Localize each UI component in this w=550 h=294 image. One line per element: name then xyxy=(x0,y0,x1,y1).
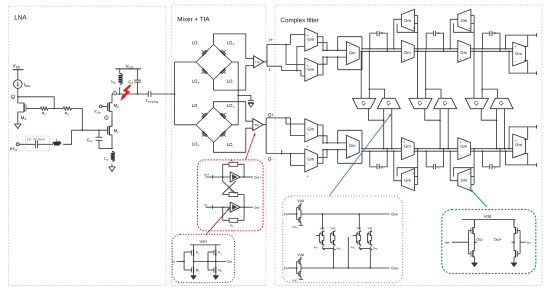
feedback transconductor Gm fb1 xyxy=(401,9,414,31)
green box left inverter NMOS xyxy=(472,250,474,257)
Q+ branch xyxy=(286,118,305,124)
filter capacitor at TIA input xyxy=(238,95,251,100)
ground of M3 xyxy=(15,124,21,129)
svg-text:-: - xyxy=(233,144,234,148)
svg-text:+: + xyxy=(306,34,308,38)
green dashed box coupling Gm implementation xyxy=(442,210,536,274)
transistor N1 xyxy=(193,267,195,274)
wire I mixer top output to TIA xyxy=(214,34,254,59)
svg-text:Complex filter: Complex filter xyxy=(280,17,319,24)
svg-text:+: + xyxy=(469,171,471,175)
cross coupling wires xyxy=(223,181,236,193)
coupling transconductor up node C xyxy=(434,98,457,108)
svg-text:Gm: Gm xyxy=(461,178,468,183)
ground left inverter xyxy=(472,263,478,267)
svg-text:Vdd: Vdd xyxy=(356,227,361,230)
svg-text:Gm: Gm xyxy=(349,50,356,55)
svg-text:Out+: Out+ xyxy=(254,176,261,180)
transistor P2 xyxy=(215,245,217,249)
coupling wires node D lower xyxy=(504,109,506,149)
svg-text:+: + xyxy=(403,140,405,144)
wire R1 to R2 with junction xyxy=(48,108,63,110)
coupling lower loop node B xyxy=(368,109,383,121)
svg-text:Q+: Q+ xyxy=(268,112,275,117)
svg-text:Gm: Gm xyxy=(515,51,522,56)
svg-text:Gm: Gm xyxy=(404,178,411,183)
svg-text:Gm: Gm xyxy=(307,156,314,161)
amplifier triangle 2 xyxy=(230,202,240,212)
wire I mixer right corner to Q mixer right corner xyxy=(232,62,238,125)
main I bus xyxy=(362,48,513,50)
transistor M3 xyxy=(18,102,24,104)
wire Q mixer top output to TIA xyxy=(214,102,253,122)
I- output wire xyxy=(267,46,305,70)
svg-text:Vdd: Vdd xyxy=(297,253,303,257)
coupling transconductor down node B xyxy=(353,98,376,108)
feedback resistor RF2 xyxy=(229,218,238,222)
wire R2 to M1 gate node xyxy=(71,109,82,131)
LNA output node wire xyxy=(112,93,148,95)
purple callout arrow to amplifier triangle xyxy=(206,208,230,235)
svg-text:Gm: Gm xyxy=(461,18,468,23)
op-amp TIA Q xyxy=(253,119,263,131)
ground of N2 xyxy=(213,276,218,280)
Out- stub green box xyxy=(475,241,478,243)
transistor M2 cascode xyxy=(106,103,108,111)
gate bus inverter amp xyxy=(183,252,185,270)
svg-text:+: + xyxy=(460,140,462,144)
ground of Ls xyxy=(109,167,115,172)
svg-text:In-: In- xyxy=(204,203,208,207)
RF input terminal xyxy=(16,143,19,146)
svg-text:Out: Out xyxy=(227,260,233,264)
output terminal wire top xyxy=(528,34,537,36)
inductor Lg xyxy=(53,142,61,145)
svg-text:-: - xyxy=(233,81,234,85)
green box right inverter NMOS xyxy=(515,250,517,257)
svg-text:In-: In- xyxy=(527,241,532,245)
current source Ibias xyxy=(13,80,22,89)
forward transconductor Gm fb1 xyxy=(401,40,414,62)
coupling transconductor up node D xyxy=(490,98,513,108)
DC block capacitor xyxy=(34,140,36,148)
svg-text:B: B xyxy=(381,165,383,169)
red dashed box TIA implementation xyxy=(198,160,264,231)
ground of N1 xyxy=(191,276,196,280)
Out- wire xyxy=(301,213,390,215)
ESD strike red lightning bolt xyxy=(122,85,130,97)
wire I mixer bottom output to TIA xyxy=(214,66,254,91)
svg-text:Gm: Gm xyxy=(404,50,411,55)
Vdd rail inverter amp xyxy=(190,244,221,246)
inductor Ls degeneration xyxy=(111,152,114,161)
red callout arrow to TIA Q xyxy=(246,133,256,160)
svg-text:+: + xyxy=(403,57,405,61)
wire gate line to M1 xyxy=(72,129,108,131)
coupling wires node C upper xyxy=(417,51,419,98)
svg-text:D: D xyxy=(494,165,496,169)
Vcas bias terminal xyxy=(99,105,102,108)
node capacitor CB xyxy=(370,33,377,49)
svg-text:+: + xyxy=(515,45,517,49)
In- wire green box xyxy=(520,241,526,243)
svg-text:Gm: Gm xyxy=(404,144,411,149)
green box right gate bus xyxy=(519,231,521,254)
capacitor Cd xyxy=(137,69,139,80)
wire Ccoupling to mixer RF node xyxy=(151,93,175,95)
transistor N2 xyxy=(215,267,217,274)
wire current source to node a xyxy=(17,88,19,103)
feedback transconductor Gm fb2 xyxy=(458,9,471,31)
RF distribution wire to I and Q mixers xyxy=(174,62,176,125)
wire Q mixer bottom output to TIA xyxy=(214,128,253,152)
coupling wires node B upper xyxy=(360,51,362,98)
ground right inverter xyxy=(511,263,517,267)
resistor R2 xyxy=(63,107,71,111)
svg-text:+: + xyxy=(412,26,414,30)
feedback resistor RM xyxy=(229,193,238,197)
feedback wire left fb1 xyxy=(394,19,402,49)
Q- branch xyxy=(290,154,304,166)
Q- junction stub xyxy=(281,150,283,154)
Vdd rail green box xyxy=(462,219,515,221)
svg-text:In+: In+ xyxy=(204,173,209,177)
svg-text:C: C xyxy=(437,165,439,169)
svg-text:Vdd: Vdd xyxy=(484,214,492,219)
green callout arrow to feedback Gm xyxy=(470,189,487,207)
svg-text:Gm: Gm xyxy=(307,126,314,131)
output wire inverter amp xyxy=(194,260,227,262)
node b xyxy=(113,91,117,95)
svg-text:Gm: Gm xyxy=(460,50,467,55)
inductor Ld load xyxy=(119,69,121,74)
Q- output wire xyxy=(266,153,305,155)
op-amp TIA I xyxy=(254,56,264,68)
Complex filter section box xyxy=(275,5,542,286)
coupling transconductor down node C xyxy=(409,98,432,108)
transistor P1 xyxy=(193,245,195,249)
node capacitor CC xyxy=(426,33,433,49)
Out+ wire xyxy=(301,267,390,269)
TIA cell In+ wire xyxy=(206,176,231,178)
feedback resistor RF1 xyxy=(229,162,238,166)
svg-text:In+: In+ xyxy=(284,212,289,216)
svg-text:Vdd: Vdd xyxy=(320,227,325,230)
svg-text:Mixer + TIA: Mixer + TIA xyxy=(177,16,210,23)
wire Cex bottom to M1 source xyxy=(99,148,112,150)
cross inverters Inv5 Inv6 xyxy=(358,214,360,230)
forward transconductor Gm fb2 xyxy=(458,40,471,62)
svg-text:Gm: Gm xyxy=(349,143,356,148)
TIA cell top feedback loop xyxy=(223,164,229,177)
wire Lg to M1 gate line xyxy=(63,130,72,144)
svg-text:+: + xyxy=(348,155,350,159)
TIA cell Out- wire xyxy=(240,206,253,208)
svg-text:Gm: Gm xyxy=(404,18,411,23)
TIA cell bottom feedback loop xyxy=(223,207,229,220)
svg-text:+: + xyxy=(515,139,517,143)
svg-text:Out+: Out+ xyxy=(494,238,502,242)
transistor M1 xyxy=(106,126,108,134)
In+ wire green box xyxy=(452,241,468,243)
svg-text:-: - xyxy=(198,105,199,109)
svg-text:Vdd: Vdd xyxy=(297,199,303,203)
coupling capacitor Ccoupling xyxy=(147,91,149,97)
center link wire xyxy=(347,237,349,268)
svg-text:I+: I+ xyxy=(269,37,273,42)
middle resistor wire xyxy=(223,194,229,196)
green box right inverter PMOS xyxy=(513,220,515,227)
svg-text:Out-: Out- xyxy=(254,206,260,210)
svg-text:Ext. DC block: Ext. DC block xyxy=(27,137,46,141)
svg-text:+: + xyxy=(412,171,414,175)
dark red dotted box amplifier implementation xyxy=(172,234,234,282)
svg-text:+: + xyxy=(460,57,462,61)
node a xyxy=(11,95,15,99)
feedback wire left fb2 xyxy=(450,19,458,49)
svg-text:+: + xyxy=(306,175,308,179)
TIA cell In- wire xyxy=(206,206,231,208)
node A bus xyxy=(323,49,346,51)
svg-text:Out-: Out- xyxy=(476,238,484,242)
svg-text:+: + xyxy=(306,64,308,68)
TIA cell Out+ wire xyxy=(240,176,253,178)
wire TIA I outputs xyxy=(264,61,267,63)
svg-text:D: D xyxy=(494,31,496,35)
green box left gate bus xyxy=(467,231,469,254)
svg-text:Vdd: Vdd xyxy=(331,227,336,230)
svg-text:LNA: LNA xyxy=(14,15,27,22)
input Gm A wires xyxy=(317,36,323,38)
input transconductor Gm2 xyxy=(305,58,318,81)
blue callout arrow to coupling Gm xyxy=(329,114,391,196)
output Gm bottom loop xyxy=(509,51,536,73)
Out+ stub green box xyxy=(512,241,515,243)
amplifier triangle 1 xyxy=(230,172,240,182)
svg-text:+: + xyxy=(469,26,471,30)
svg-text:-: - xyxy=(198,42,199,46)
feedback wire right fb2 xyxy=(473,16,475,52)
coupling wires node B lower xyxy=(391,109,393,149)
wire RFin to DC block xyxy=(19,143,35,145)
svg-text:Out-: Out- xyxy=(391,212,399,216)
svg-text:Vdd: Vdd xyxy=(199,239,206,244)
output transconductor Gm5 xyxy=(513,42,526,66)
svg-text:Out+: Out+ xyxy=(391,266,399,270)
output terminal wire bottom xyxy=(536,71,538,75)
svg-text:C: C xyxy=(437,31,439,35)
node capacitor CD xyxy=(483,33,490,49)
coupling wires node C lower xyxy=(447,109,449,149)
svg-text:+: + xyxy=(198,81,200,85)
svg-text:In+: In+ xyxy=(445,241,450,245)
svg-text:In: In xyxy=(172,260,175,264)
resistor R1 xyxy=(40,107,48,111)
forward transconductor Gm3 xyxy=(346,42,359,65)
I mixer passive quad xyxy=(196,56,202,62)
I- branch to Gm2 xyxy=(297,71,305,76)
input transconductor Gm1 xyxy=(305,28,318,51)
node c xyxy=(105,116,109,120)
wire VDD to current source xyxy=(17,70,19,80)
feedback Gm lower loop fb1 xyxy=(397,24,418,33)
output Gm top loop xyxy=(506,35,528,49)
capacitor Cex xyxy=(98,130,100,137)
cascode gate bus xyxy=(207,252,209,270)
svg-text:+: + xyxy=(198,144,200,148)
coupling lower loop node C xyxy=(425,109,440,121)
svg-text:Gm: Gm xyxy=(515,142,522,147)
cross inverters Inv3 Inv4 xyxy=(322,214,324,230)
svg-text:I-: I- xyxy=(269,67,272,72)
coupling wires node D upper xyxy=(473,51,475,98)
svg-text:B: B xyxy=(381,31,383,35)
blue dotted box Gm implementation xyxy=(283,196,403,283)
svg-text:+: + xyxy=(233,105,235,109)
input Gm B wires xyxy=(317,57,327,64)
LNA section box xyxy=(9,6,166,285)
feedback wire right fb1 xyxy=(417,16,419,52)
Gm stage loop rectangle xyxy=(338,36,362,38)
wire node a to Rbias junction xyxy=(18,97,54,109)
coupling lower loop node D xyxy=(481,109,496,121)
green box left inverter PMOS xyxy=(474,220,476,227)
Q path mirrored geometry xyxy=(305,119,537,191)
I+ branch to Gm2 xyxy=(286,44,305,64)
wire DC block to Lg xyxy=(38,143,53,145)
ground of filter capacitor xyxy=(248,103,253,107)
I+ output wire xyxy=(267,35,305,45)
external DC block box xyxy=(25,136,49,151)
Mixer+TIA section box xyxy=(171,5,266,286)
wire M3 gate to R1 xyxy=(26,108,40,110)
svg-text:+: + xyxy=(348,44,350,48)
coupling transconductor down node D xyxy=(465,98,488,108)
svg-text:Vdd: Vdd xyxy=(367,227,372,230)
svg-text:+: + xyxy=(233,42,235,46)
svg-text:Gm: Gm xyxy=(460,144,467,149)
coupling transconductor up node B xyxy=(377,98,400,108)
svg-text:Q-: Q- xyxy=(268,156,274,161)
wire TIA Q outputs xyxy=(263,124,266,126)
feedback Gm lower loop fb2 xyxy=(454,24,475,33)
Q mixer passive quad xyxy=(196,119,202,125)
svg-text:+: + xyxy=(306,145,308,149)
Q+ output wire xyxy=(266,118,305,136)
